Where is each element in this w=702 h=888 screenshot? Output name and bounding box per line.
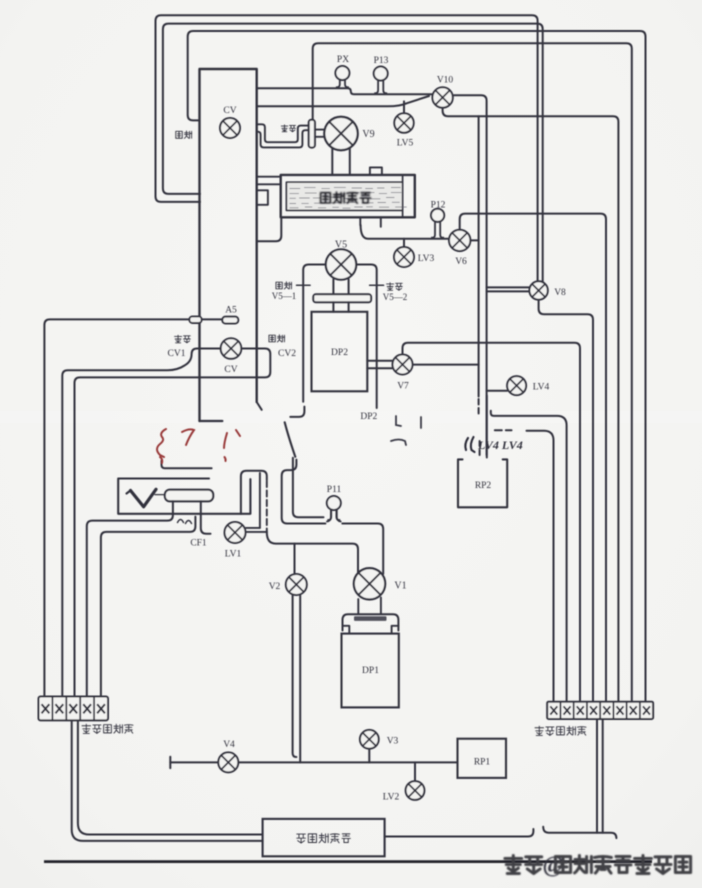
- DP1 collar: [343, 614, 399, 630]
- wire V9-top L4 to right terminal 7: [313, 43, 632, 702]
- chamber bottom-left edge: [200, 420, 223, 422]
- wire RP2 line2 dash a: [495, 429, 512, 431]
- chamber stub port: [257, 190, 268, 205]
- right solenoid terminal block: [547, 702, 653, 719]
- pipe chamber-V9 lower: [257, 130, 309, 147]
- tank inner walls: [286, 175, 402, 217]
- wire LV1 stub upper: [246, 527, 260, 529]
- wire chamber-tank top a: [257, 176, 281, 178]
- svg-text:PX: PX: [337, 55, 349, 65]
- label tank text: [321, 192, 371, 203]
- valve V7: [393, 355, 413, 375]
- pipe right-terminal down a: [596, 719, 598, 833]
- wire CF1 right to left terminal 5: [101, 517, 195, 697]
- wire RP2 line2 to right terminal 1: [527, 431, 554, 702]
- label jihedicifa left: [82, 724, 91, 733]
- air compressor box: [263, 819, 385, 856]
- tank liquid waves: [290, 187, 407, 208]
- pipe LV1-riser left: [259, 473, 261, 528]
- wire chamber port B to LV5 junction: [257, 96, 429, 106]
- wire middle vertical left dashed part: [478, 399, 480, 414]
- label kaiqi CV1: [175, 335, 182, 343]
- checkmark: [131, 489, 157, 507]
- svg-text:P11: P11: [327, 485, 342, 495]
- svg-text:LV2: LV2: [383, 793, 400, 803]
- svg-text:V4: V4: [223, 740, 235, 750]
- svg-text:CV1: CV1: [168, 349, 186, 359]
- wire A5 inner: [201, 318, 222, 320]
- checkmark serif: [127, 491, 131, 494]
- svg-text:CV: CV: [224, 365, 237, 375]
- svg-text:RP1: RP1: [474, 758, 491, 768]
- wire RP2 line1 to right terminal 2: [491, 411, 567, 702]
- red handwritten marks: [157, 429, 240, 463]
- pipe V2 down right: [299, 595, 301, 762]
- checkmark antenna: [155, 494, 167, 496]
- svg-text:P12: P12: [431, 201, 446, 211]
- pipe to right terminal pair: [543, 827, 616, 838]
- svg-text:P13: P13: [374, 56, 389, 66]
- label guanbi (chamber left port): [176, 131, 183, 138]
- funnel step upper: [290, 407, 304, 417]
- gauge P11: [327, 496, 341, 521]
- wire chamber-port L3 to right terminal 8: [188, 31, 646, 702]
- svg-text:DP2: DP2: [360, 412, 377, 422]
- svg-text:V1: V1: [394, 581, 406, 592]
- tank bottom port left: [359, 217, 361, 225]
- valve CV-top: [220, 118, 240, 138]
- svg-text:V9: V9: [362, 129, 374, 140]
- pipe right-terminal down b: [602, 719, 604, 833]
- wire LV1 stub lower: [246, 531, 267, 533]
- cold trap CF1: [165, 490, 213, 502]
- funnel diagonal: [285, 422, 296, 457]
- left solenoid terminal block: [39, 697, 109, 721]
- wire chamber-V8 pipe outer: [156, 15, 538, 281]
- pipe tank to chamber lower: [257, 217, 282, 241]
- label air compressor: [297, 834, 306, 843]
- valve CV-bottom: [221, 338, 242, 359]
- svg-text:V5—1: V5—1: [272, 291, 297, 301]
- svg-text:V7: V7: [397, 382, 409, 392]
- valve V1: [354, 568, 385, 599]
- shelf line: [162, 461, 212, 469]
- tank top notch: [370, 167, 382, 175]
- valve LV3: [394, 247, 414, 267]
- funnel to P11 line inner: [293, 458, 324, 518]
- wire V6-top to right terminal 5: [460, 214, 606, 702]
- wire A5 to left terminal 1: [44, 319, 189, 696]
- pipe V5-1 feet: [297, 284, 311, 286]
- svg-text:V10: V10: [437, 76, 454, 86]
- svg-text:V3: V3: [387, 737, 399, 747]
- diffusion pump DP2 box: [312, 312, 368, 392]
- gauge box: [118, 479, 250, 514]
- pipe V5-1 down: [303, 265, 326, 402]
- V1 to flange left: [357, 599, 359, 614]
- svg-text:DP1: DP1: [362, 666, 379, 676]
- valve V8: [529, 281, 547, 299]
- gauge PX: [335, 66, 349, 88]
- svg-text:DP2: DP2: [331, 348, 348, 358]
- DP2 baffle bar: [313, 294, 371, 302]
- gauge P13: [374, 67, 388, 95]
- label jihedicifa right: [535, 726, 544, 735]
- P11 stem right: [337, 509, 341, 521]
- valve LV4: [507, 376, 526, 395]
- wire chamber-V8 pipe inner: [163, 24, 543, 282]
- wire into RP2 right: [486, 396, 488, 458]
- CF1 liquid marks: [178, 520, 192, 524]
- wire chamber-tank top b: [257, 183, 281, 185]
- valve V4: [218, 752, 238, 772]
- wire LV4 stub: [487, 390, 508, 392]
- wire LV2 stub: [414, 762, 416, 781]
- wire V6 right stub: [470, 239, 478, 241]
- wire V3 stub: [368, 749, 370, 763]
- valve LV5: [394, 113, 413, 132]
- watermark toutiao: [505, 852, 691, 878]
- RP2 box: [458, 459, 507, 507]
- dark handwritten marks (LV4 LV4): [465, 437, 474, 452]
- wire flange-V9 a: [315, 129, 325, 131]
- pipe chamber-V9 upper: [257, 124, 309, 142]
- wire flange-V9 b: [315, 136, 325, 138]
- label guanbi CV2: [269, 335, 275, 342]
- svg-text:LV4 LV4: LV4 LV4: [477, 438, 523, 452]
- svg-text:LV4: LV4: [533, 383, 550, 393]
- wire V10-bottom to right terminal 6: [443, 108, 619, 702]
- valve LV2: [406, 781, 425, 800]
- valve V2: [286, 574, 307, 595]
- wire CF1 right-leg tail: [201, 501, 211, 533]
- roughing pump RP1: [458, 739, 507, 778]
- wire CV2 to left terminal 3: [75, 349, 271, 697]
- wire tank port to V6: [361, 225, 450, 239]
- wire P11-line to V1 right: [342, 524, 383, 574]
- wire CV1 to left terminal 2: [62, 349, 221, 697]
- V1 to flange right: [380, 598, 382, 615]
- wire chamber to V10 (PX/P13 line): [257, 88, 433, 94]
- liquid nitrogen trap tank: [286, 182, 402, 210]
- pipe LV1-riser right: [266, 481, 268, 532]
- P11 stem left: [327, 509, 331, 521]
- valve V5: [326, 249, 356, 279]
- diffusion pump DP1: [342, 634, 399, 708]
- wire V8 left stub upper: [487, 286, 530, 288]
- svg-text:LV1: LV1: [225, 550, 242, 560]
- tank outer: [281, 175, 415, 217]
- wire DP2 to V7 lower: [367, 367, 392, 369]
- svg-text:LV3: LV3: [418, 254, 435, 264]
- tank bottom port right: [380, 217, 382, 227]
- pipe V5-2 feet: [370, 284, 384, 286]
- wire CF1 left-leg to left terminal 4: [87, 501, 173, 696]
- pipe baffle to DP2: [333, 302, 348, 312]
- funnel to P11 line outer: [282, 460, 326, 524]
- svg-text:CF1: CF1: [190, 539, 207, 549]
- sensor A5 pills: [189, 316, 201, 323]
- wire V8 left stub lower: [487, 290, 530, 292]
- pipe left-terminal to compressor outer: [72, 720, 263, 841]
- valve V9: [324, 117, 357, 150]
- pipe V5-2 down: [356, 265, 377, 409]
- svg-text:A5: A5: [225, 306, 237, 316]
- valve V3: [360, 730, 379, 749]
- pipe V5 to baffle: [333, 279, 348, 294]
- wire V7 right stub: [412, 364, 478, 366]
- wire DP2 to V7 upper: [367, 360, 392, 362]
- pipe V9 down right: [349, 149, 351, 175]
- svg-text:RP2: RP2: [475, 481, 492, 491]
- funnel left pocket: [241, 471, 267, 514]
- chamber bottom-right tick: [257, 402, 262, 410]
- pipe compressor right with hook: [385, 829, 534, 837]
- V9 flange: [309, 120, 315, 148]
- label kaiqi V5-2: [387, 283, 394, 291]
- wire V8-bottom to right terminal 4: [539, 300, 593, 702]
- svg-text:CV: CV: [223, 106, 236, 116]
- main line end cap: [169, 757, 171, 768]
- DP1 collar notches: [343, 626, 399, 634]
- valve V6: [449, 230, 470, 251]
- label kaiqi (chamber V9 port): [281, 125, 287, 132]
- faint handwriting near DP2: [391, 416, 421, 445]
- valve LV1: [225, 522, 246, 543]
- chamber outline: [200, 69, 257, 421]
- wire LV5 stem: [403, 101, 405, 113]
- main bottom line: [170, 761, 457, 763]
- svg-text:V5: V5: [335, 240, 347, 251]
- wire middle vertical left: [478, 116, 480, 396]
- valve V10: [432, 87, 452, 107]
- svg-text:V5—2: V5—2: [383, 292, 408, 302]
- svg-text:V2: V2: [269, 582, 281, 592]
- svg-text:LV5: LV5: [397, 139, 414, 149]
- pipe V9 down left: [331, 149, 333, 175]
- wire V2 stub: [294, 544, 296, 574]
- svg-text:CV2: CV2: [278, 349, 296, 359]
- wire V10-right down middle vertical right: [453, 95, 486, 455]
- label guanbi V5-1: [276, 282, 282, 289]
- wire middle vertical left dashed part 2: [479, 441, 481, 458]
- gauge P12: [431, 209, 444, 239]
- pipe V2 down left: [293, 595, 297, 757]
- pipe left-terminal to compressor inner: [78, 720, 263, 834]
- wire LV1-line to V1 top: [267, 532, 358, 574]
- svg-text:V6: V6: [455, 257, 467, 267]
- svg-text:V8: V8: [554, 288, 566, 298]
- wire LV3 stem: [403, 239, 405, 248]
- wire V7-top to right terminal 3: [403, 343, 581, 702]
